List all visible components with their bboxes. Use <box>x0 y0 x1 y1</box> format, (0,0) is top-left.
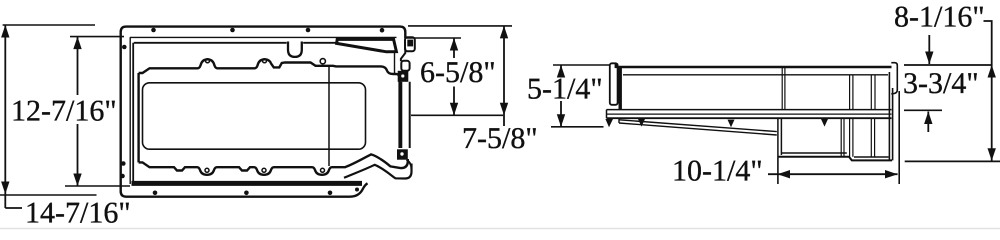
top view: flange bolt holes <box>120 28 384 195</box>
top view: pan body scalloped outline left <box>137 73 139 162</box>
top view: right inner connector line <box>394 52 396 73</box>
dimension 12-7/16 extension line bottom <box>65 185 130 187</box>
dimension 14-7/16 extension line bottom <box>0 194 97 196</box>
faint page rule at bottom <box>0 228 1000 230</box>
side view: rail hanging triangle 2 <box>728 120 735 128</box>
side view: shallow floor slope outer <box>619 120 777 132</box>
top view: flange bolt-boss tab upper right <box>405 37 415 51</box>
side view: upper band verticals <box>782 67 875 110</box>
dimension 10-1/4 arrowheads <box>777 170 897 178</box>
side view: left end wall <box>619 66 622 110</box>
side view: inner top line <box>623 74 888 76</box>
dimension 3-3/4 lower extension line <box>904 109 942 111</box>
dimension 6-5/8 extension line top <box>406 37 461 39</box>
dimension 8-1/16 arrowheads <box>988 65 996 161</box>
side view: rail hanging triangle 3 <box>821 119 828 127</box>
side view: left mounting tab <box>610 63 618 105</box>
top view: lower right bolt boss tab <box>397 149 412 169</box>
dimension 10-1/4 dimension line with text dash <box>768 173 898 175</box>
side view: rail hanging triangle 1 <box>638 119 645 127</box>
svg-text:6-5/8": 6-5/8" <box>420 56 496 89</box>
dimension 7-5/8 extension line top <box>408 25 512 27</box>
side view: shallow floor slope inner <box>619 123 777 135</box>
top view: lower-right S-step lower contour <box>344 164 412 179</box>
dimension 5-1/4 dimension line <box>560 65 562 127</box>
side view: sump bottom inner <box>781 153 888 157</box>
dimension 10-1/4 left extension (sump wall extended) <box>777 157 779 184</box>
dimension 14-7/16 dimension line with leader <box>5 25 22 208</box>
top view: pan body scalloped outline bottom <box>139 154 408 174</box>
dimension 5-1/4 extension line top <box>553 64 610 66</box>
svg-text:12-7/16": 12-7/16" <box>11 95 117 128</box>
dimension 6-5/8 arrowheads <box>450 38 458 115</box>
top view: third outline <box>133 43 336 182</box>
dimension 12-7/16 dimension line <box>77 37 79 186</box>
dimension 12-7/16 arrowheads <box>73 37 81 186</box>
top view: pan body scalloped outline top <box>139 59 400 148</box>
oil pan top view: outer flange outline <box>121 27 406 197</box>
top view: sump front wall line <box>328 66 330 166</box>
side view: top edge <box>618 66 892 69</box>
dimension 5-1/4 arrowheads <box>557 65 565 127</box>
side view: sump interior verticals <box>841 118 874 157</box>
svg-text:7-5/8": 7-5/8" <box>462 122 538 155</box>
top view: U-shaped tube notch top center <box>288 42 302 57</box>
top view: right edge jog below tab <box>401 49 405 62</box>
side view: sump front wall <box>778 119 782 158</box>
top view: right edge double vertical walls <box>401 82 409 148</box>
svg-text:5-1/4": 5-1/4" <box>527 73 603 106</box>
side view: top right tab <box>891 63 897 94</box>
side view: right end wall <box>889 72 892 160</box>
dimension 8-1/16 bottom extension line <box>905 160 1000 162</box>
dimension 12-7/16 extension line top <box>70 36 124 38</box>
side view: gasket rail band <box>607 110 892 119</box>
dimension 3-3/4 upper extension line <box>904 64 992 66</box>
top view: inner floor rectangle <box>143 83 366 149</box>
dimension 6-5/8 dimension line <box>453 38 455 115</box>
dimension 8-1/16 dimension line <box>984 21 992 161</box>
dimension 7-5/8 arrowheads <box>500 26 508 115</box>
top view: right edge small tab with bolt boss <box>398 61 410 82</box>
dimension 3-3/4 lower arrow <box>924 112 932 133</box>
svg-text:3-3/4": 3-3/4" <box>903 67 979 100</box>
dimension 3-3/4 upper arrow <box>925 35 933 64</box>
side view: slope left cap <box>618 118 620 123</box>
dimension 10-1/4 right extension line <box>898 91 900 184</box>
top view: scallop rib rings <box>205 59 325 173</box>
top view: second (gasket inner) outline <box>130 37 397 184</box>
dimension 14-7/16 extension line top <box>3 24 95 26</box>
shared bottom extension line for 6-5/8 and 7-5/8 <box>411 114 503 116</box>
side view: rail left tip triangle <box>605 119 613 127</box>
svg-text:14-7/16": 14-7/16" <box>25 197 131 230</box>
dimension 7-5/8 dimension line <box>503 26 505 126</box>
dimension 5-1/4 extension line bottom <box>551 126 604 128</box>
side view: sump bottom outer <box>778 157 892 161</box>
top view: dipstick hole ring <box>320 59 325 64</box>
dimension 14-7/16 arrowheads <box>1 25 9 194</box>
svg-text:8-1/16": 8-1/16" <box>894 1 985 34</box>
top view: reinforcement plate (filled-border parallelogram) <box>337 39 397 51</box>
svg-text:10-1/4": 10-1/4" <box>672 155 763 188</box>
top view: thick bottom inner band <box>132 181 363 186</box>
